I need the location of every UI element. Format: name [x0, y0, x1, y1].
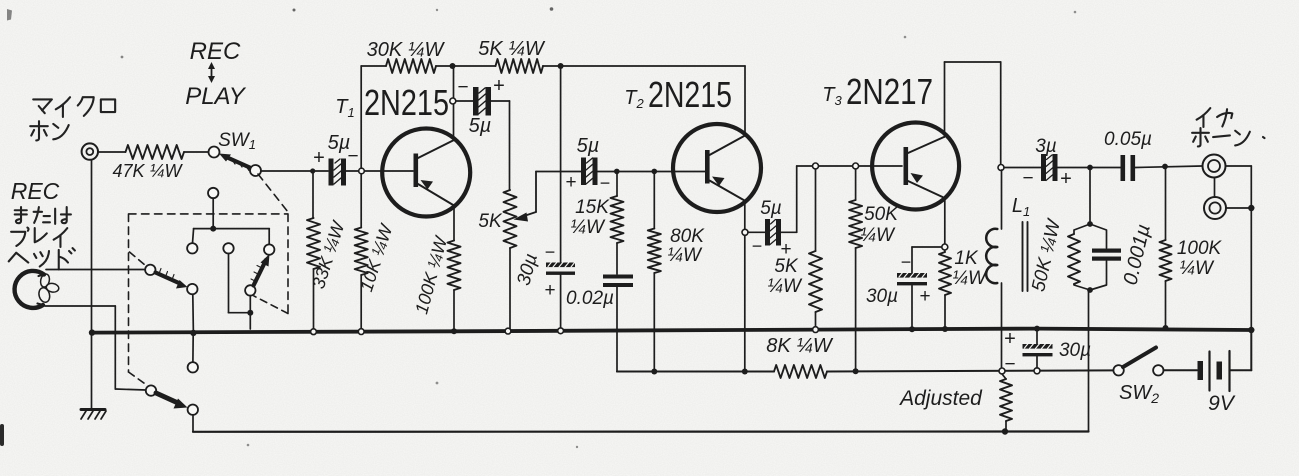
wire T1 emitter down: [453, 206, 455, 241]
svg-text:PLAY: PLAY: [185, 83, 247, 110]
svg-text:−: −: [545, 242, 556, 262]
resistor R2 33K 1/4W vertical: [307, 173, 320, 329]
wire SW1 to C1 input node: [261, 170, 328, 172]
svg-text:0.02µ: 0.02µ: [566, 288, 614, 309]
scan artifact marks (edge smudges): [0, 7, 1076, 448]
junction open circle T3 emitter (C7 tap): [942, 244, 948, 250]
capacitor C6 5u (T3 input, hatched): [765, 219, 781, 246]
wire target contact down to bottom rail: [192, 415, 194, 432]
contact circle right of T-bar: [264, 244, 274, 254]
svg-text:2N215: 2N215: [648, 74, 732, 115]
dashed link SW1 to box corner: [258, 174, 288, 212]
label head line2 (mata wa): [15, 207, 71, 224]
resistor R9 8K 1/4W: [774, 365, 827, 378]
bottom return rail: [193, 430, 1089, 432]
svg-text:47K ¼W: 47K ¼W: [112, 161, 183, 181]
junction dot T2 emitter bottom: [742, 369, 748, 375]
wire middle contact down and over to common node: [229, 254, 251, 313]
junction dot Adjusted bottom: [1002, 428, 1008, 434]
record/play head symbol: [15, 271, 60, 308]
svg-text:¼W: ¼W: [667, 245, 703, 266]
svg-text:−: −: [1022, 168, 1033, 189]
lower-left switch moving contact: [146, 385, 156, 395]
bus junction dot right end: [1248, 327, 1254, 333]
svg-text:2N217: 2N217: [846, 71, 933, 112]
lower-left switch arm (solid) with arrowhead: [156, 393, 188, 409]
svg-text:¼W: ¼W: [952, 268, 988, 289]
svg-text:+: +: [565, 172, 576, 193]
svg-text:¼W: ¼W: [1179, 258, 1215, 279]
dashed enclosure of REC/PLAY switch: [129, 214, 289, 372]
resistor R7 15K 1/4W: [611, 174, 624, 274]
svg-text:+: +: [1004, 328, 1016, 350]
junction at 50K/0.001u top: [1087, 165, 1093, 171]
wire head top terminal to switch contact: [46, 269, 144, 271]
capacitor C5 0.02u: [603, 275, 633, 288]
svg-text:−: −: [600, 173, 611, 193]
earphone jack bottom terminal: [1204, 197, 1226, 219]
svg-text:+: +: [544, 280, 555, 301]
capacitor C1 5u (electrolytic, hatched): [329, 159, 347, 186]
svg-text:REC: REC: [190, 38, 241, 65]
stub below bus to spare contact: [192, 334, 194, 362]
wire fixed contact down to bus: [192, 294, 195, 333]
switch SW2 arm: [1123, 348, 1156, 368]
switch SW1 moving contact: [250, 165, 261, 176]
wire C2 to volume pot top: [491, 101, 510, 190]
svg-text:−: −: [347, 146, 358, 167]
switch SW2 right contact: [1153, 365, 1163, 375]
inductor L1 (choke) with core lines: [986, 170, 1027, 368]
resistor R11 50K 1/4W (T3 base to lower rail): [849, 169, 862, 372]
svg-text:+: +: [493, 75, 505, 97]
bus junction dot at 1K bottom: [942, 326, 948, 332]
junction 80K top: [652, 169, 658, 175]
bus open circle at C4 bottom: [558, 328, 564, 334]
junction open circle output node (L1 top / 3u): [998, 165, 1004, 171]
capacitor C8 3u (output coupling, hatched): [1041, 154, 1058, 181]
potentiometer VR1 5K body: [504, 190, 517, 329]
junction dot of T-bar: [210, 226, 216, 232]
svg-text:REC: REC: [11, 178, 60, 204]
label earphone (katakana iya): [1197, 108, 1233, 127]
REC/PLAY double arrow: [208, 62, 215, 83]
junction bottom of parallel RC: [1087, 287, 1093, 293]
svg-text:30µ: 30µ: [866, 286, 898, 307]
bus junction dot at switch column: [190, 330, 196, 336]
label earphone line2 (katakana ho-n): [1192, 128, 1264, 146]
wire T1 collector vertical: [453, 66, 455, 140]
transistor T2 2N215: [673, 124, 761, 212]
switch pole-A common terminal (top circle): [208, 188, 218, 198]
wire 47K to SW1: [184, 151, 209, 153]
resistor R5 5K 1/4W: [496, 59, 544, 73]
wire output node to C8: [1004, 167, 1041, 169]
svg-text:5µ: 5µ: [577, 135, 600, 157]
capacitor C7 30u (emitter bypass, hatched plate): [897, 247, 942, 329]
wire T2 emitter down to lower rail: [744, 201, 746, 372]
svg-text:80K: 80K: [670, 226, 705, 247]
main bus rail (thick horizontal): [92, 329, 1251, 333]
junction T1 collector node on top rail: [450, 63, 456, 69]
VR1 wiper arrow: [514, 172, 537, 222]
resistor R13 50K 1/4W (parallel branch): [1068, 224, 1090, 290]
wire battery to bus right end: [1230, 330, 1252, 370]
junction node at 33K top: [310, 168, 315, 173]
capacitor C11 30u (rail bypass, hatched plate): [1023, 330, 1053, 368]
svg-text:0.05µ: 0.05µ: [1104, 129, 1152, 150]
wire between earphone terminals: [1214, 178, 1216, 198]
svg-text:¼W: ¼W: [570, 217, 606, 238]
label head line3 (purei): [11, 228, 67, 247]
ground symbol (chassis): [81, 410, 106, 420]
wire head bottom terminal: [45, 306, 146, 390]
bus open circle at 10K bottom: [358, 329, 364, 335]
junction open circle Adjusted-resistor node: [999, 368, 1005, 374]
svg-text:−: −: [457, 77, 468, 98]
svg-text:9V: 9V: [1208, 392, 1236, 415]
resistor R3 10K 1/4W vertical: [355, 174, 368, 329]
battery BT1 9V: [1198, 351, 1230, 391]
svg-text:3µ: 3µ: [1035, 136, 1057, 157]
bus junction dot left end: [89, 329, 95, 335]
switch SW1 fixed contact: [209, 147, 220, 158]
svg-text:5K ¼W: 5K ¼W: [478, 38, 546, 60]
label microphone line2 (katakana hon): [30, 121, 68, 140]
junction open circle on collector (to C2): [450, 98, 456, 104]
wire C3 to T2 base: [598, 171, 706, 173]
label microphone (katakana maikuro): [33, 97, 115, 117]
wire top rail left segment: [361, 65, 386, 67]
wire C1 to T1 base: [346, 170, 413, 172]
microphone jack connector: [82, 143, 98, 159]
dashed link box edge to upper-left arm: [130, 252, 146, 266]
bus open circle at pot bottom: [505, 328, 511, 334]
junction open circle C11 bottom: [1034, 368, 1040, 374]
upper-left switch moving contact: [145, 265, 155, 275]
bus junction dot at C7 bottom: [909, 326, 915, 332]
svg-text:15K: 15K: [575, 197, 610, 218]
svg-text:5K: 5K: [478, 211, 503, 232]
junction open circle 50K(T3) top: [853, 163, 859, 169]
svg-text:30µ: 30µ: [1059, 340, 1091, 361]
junction top of parallel RC: [1087, 221, 1093, 227]
wire 5K to T2 supply node: [543, 65, 745, 67]
svg-text:Adjusted: Adjusted: [898, 387, 983, 410]
wire C8 to 0.05u: [1058, 167, 1123, 169]
svg-text:¼W: ¼W: [860, 225, 896, 246]
svg-text:−: −: [752, 236, 763, 256]
bus open circle at 33K bottom: [311, 329, 317, 335]
junction open circle 5K(T3) top: [813, 163, 819, 169]
right switch arm (hatched) with arrowhead: [251, 254, 270, 286]
wire mic jack to resistor 47K: [98, 151, 126, 153]
wire junction down to bus: [249, 313, 251, 329]
dashed link box right edge to right arm: [254, 296, 288, 314]
contact circle left of T-bar: [187, 243, 197, 253]
lower rail wire (emitter/bias return): [617, 370, 1113, 371]
transistor T3 2N217: [872, 123, 959, 210]
wire emitter tap to C6: [748, 231, 765, 233]
junction open circle at 10K/base node: [359, 168, 365, 174]
wire T3 emitter down: [944, 197, 946, 252]
wire 10K node up to top feedback rail: [360, 66, 362, 168]
spare contact circle below bus: [188, 362, 198, 372]
wire mic jack down the left side: [91, 160, 93, 333]
wire earphone right side loop: [1226, 166, 1252, 329]
junction supply node at 561: [558, 63, 564, 69]
resistor R4 30K 1/4W: [386, 59, 436, 73]
wire down to parallel RC: [1089, 168, 1091, 225]
lower-left switch target contact: [188, 405, 198, 415]
svg-text:8K ¼W: 8K ¼W: [766, 335, 834, 357]
wire 0.05u to earphone node: [1135, 166, 1202, 168]
wire C5 down across bus to lower rail: [617, 287, 654, 372]
bus open circle at 5K(T3) bottom: [813, 327, 819, 333]
capacitor C10 0.05u: [1121, 155, 1136, 181]
wire wiper to C3: [536, 171, 581, 173]
wire T2 collector to top rail: [744, 66, 746, 136]
svg-text:100K: 100K: [1177, 238, 1223, 259]
capacitor C3 5u (T2 input, hatched): [581, 158, 598, 186]
resistor R1 47K 1/4W: [126, 145, 185, 159]
wire C6 to T3 base node: [781, 166, 902, 232]
resistor R14 100K 1/4W (earphone shunt): [1160, 169, 1172, 329]
wire 30K to collector node: [436, 65, 496, 67]
wire supply node down through 30u: [560, 66, 562, 329]
resistor R10 5K 1/4W (T3 base to bus): [809, 169, 822, 329]
switch SW1 arm (hatched) with arrowhead: [219, 154, 252, 171]
wire SW2 to battery: [1164, 369, 1198, 371]
junction dot below right arm: [247, 310, 253, 316]
wire common terminal down to T-bar: [212, 198, 214, 228]
svg-text:5µ: 5µ: [760, 198, 782, 219]
switch SW2 left contact: [1113, 365, 1123, 375]
svg-text:50K: 50K: [864, 204, 899, 225]
contact circle middle: [223, 243, 233, 253]
svg-text:2N215: 2N215: [364, 82, 449, 123]
transistor T1 2N215: [382, 129, 470, 217]
svg-text:+: +: [919, 286, 930, 307]
svg-text:−: −: [1004, 354, 1015, 375]
wire collector tap to C2: [456, 100, 473, 102]
upper-left switch fixed contact: [187, 284, 197, 294]
right switch arm moving contact: [245, 285, 255, 295]
label head line4 (heddo): [9, 248, 75, 269]
earphone jack top terminal: [1203, 155, 1226, 178]
wire moving contact to junction: [249, 296, 251, 310]
wire bus end down to ground: [91, 333, 93, 409]
junction dot 50K bottom: [853, 368, 859, 374]
svg-text:5K: 5K: [774, 256, 799, 277]
capacitor C4 30u (supply decoupling, hatched plate): [546, 261, 575, 275]
resistor R15 Adjusted: [1000, 374, 1012, 432]
resistor R6 100K 1/4W (T1 emitter): [448, 241, 461, 332]
svg-text:+: +: [1060, 168, 1072, 190]
capacitor C2 5u (T1 collector coupling, hatched): [473, 87, 491, 116]
svg-text:−: −: [901, 252, 912, 272]
junction 100K top: [1162, 164, 1168, 170]
svg-text:+: +: [313, 147, 325, 169]
svg-text:30K ¼W: 30K ¼W: [367, 39, 446, 61]
junction open circle on T2 emitter (C6 tap): [742, 229, 748, 235]
resistor R12 1K 1/4W (T3 emitter): [939, 252, 951, 329]
dashed link box bottom to lower-left arm: [129, 372, 147, 385]
upper-left switch arm (hatched) with arrowhead: [156, 269, 188, 289]
junction earphone bottom to vertical: [1248, 205, 1254, 211]
bus junction dot at C11 top: [1034, 326, 1040, 332]
wire T3 collector loop to output node: [945, 62, 1001, 165]
resistor R8 80K 1/4W: [648, 174, 661, 372]
bus junction dot at 100K bottom: [1163, 325, 1169, 331]
bus junction dot at 100K(T1) bottom: [451, 328, 457, 334]
svg-text:5µ: 5µ: [469, 115, 492, 137]
T-bar wire with contact stubs: [193, 229, 270, 245]
junction 15K top: [614, 169, 620, 175]
junction dot 80K bottom: [651, 369, 657, 375]
svg-text:¼W: ¼W: [767, 276, 803, 297]
capacitor C9 0.001u (parallel branch): [1090, 224, 1121, 290]
wire parallel RC bottom down to bottom rail: [1088, 290, 1090, 432]
svg-text:1K: 1K: [954, 248, 979, 269]
